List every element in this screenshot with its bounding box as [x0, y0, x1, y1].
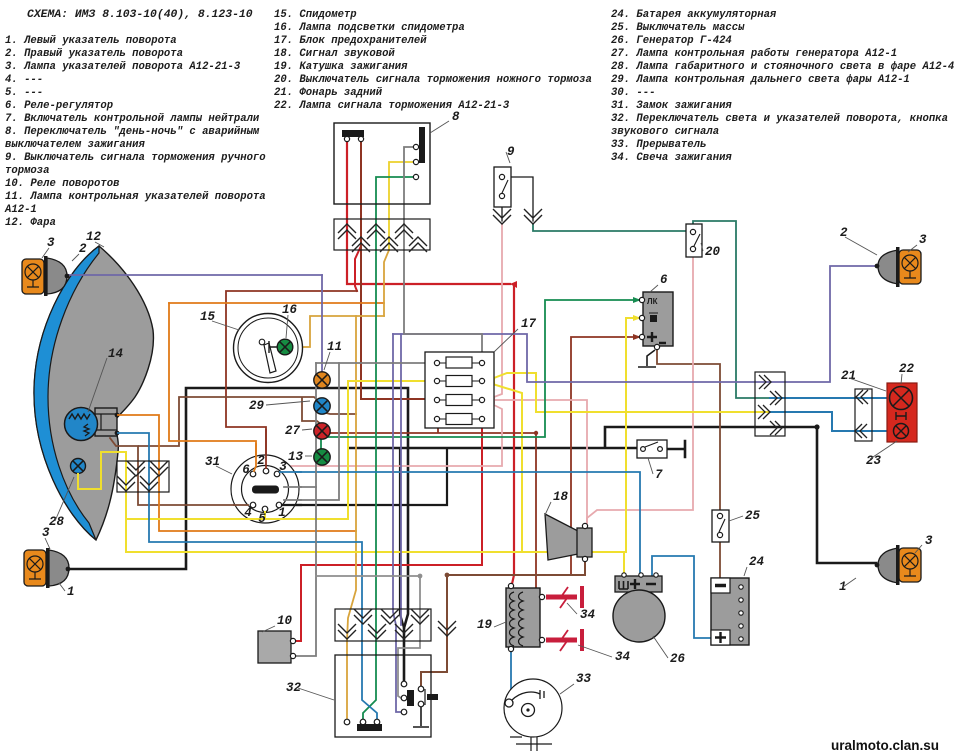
legend column 3	[611, 9, 954, 164]
svg-text:16: 16	[282, 303, 298, 317]
svg-text:13: 13	[288, 450, 304, 464]
wire blue tail lamp23	[770, 412, 893, 431]
wire gray box8 to fuse1	[404, 147, 482, 360]
wire orange ignition pin6	[169, 303, 256, 462]
svg-text:20: 20	[705, 245, 721, 259]
spark plug 34 upper	[546, 595, 577, 600]
svg-text:28. Лампа габаритного и стояно: 28. Лампа габаритного и стояночного свет…	[611, 60, 954, 73]
svg-text:8: 8	[452, 110, 460, 124]
switch 20 footbrake	[686, 224, 702, 257]
lamp 29	[314, 398, 330, 414]
svg-text:25: 25	[745, 509, 761, 523]
wire brown lamp29 top	[139, 397, 321, 446]
arrowhead yellow at relay6 Sh	[633, 315, 641, 321]
svg-text:2: 2	[257, 454, 265, 468]
wire green lamp13 to relay6	[321, 300, 639, 450]
svg-text:выключателем зажигания: выключателем зажигания	[5, 139, 146, 151]
wire violet left signal to lamp11	[67, 274, 322, 276]
wire black ignition bus to rear	[349, 427, 876, 563]
generator 26	[615, 576, 662, 592]
svg-text:1. Левый указатель поворота: 1. Левый указатель поворота	[5, 35, 177, 47]
wire red box8 to coil	[347, 140, 510, 284]
svg-text:34. Свеча зажигания: 34. Свеча зажигания	[611, 152, 732, 164]
svg-text:6: 6	[242, 463, 250, 477]
wire teal switch20 to tail light	[693, 221, 770, 398]
svg-text:12. Фара: 12. Фара	[5, 217, 56, 229]
svg-text:26. Генератор Г-424: 26. Генератор Г-424	[611, 35, 732, 47]
svg-text:26: 26	[670, 652, 686, 666]
horn 18	[545, 514, 578, 560]
turn signal bottom-right 1	[878, 548, 898, 583]
wire violet switch32 to right signal	[393, 334, 401, 625]
svg-text:10. Реле поворотов: 10. Реле поворотов	[5, 178, 120, 190]
headlight 12 body	[34, 246, 153, 540]
wire amber speedo lamp run	[293, 316, 384, 347]
svg-text:19. Катушка зажигания: 19. Катушка зажигания	[274, 61, 408, 73]
svg-text:31. Замок зажигания: 31. Замок зажигания	[611, 100, 732, 112]
wire brown lamp29 bottom	[322, 412, 356, 414]
svg-text:3: 3	[47, 236, 55, 250]
fuse block 17	[425, 352, 494, 428]
svg-text:34: 34	[580, 608, 596, 622]
wire blue pin3 to generator plus	[280, 472, 640, 578]
wire yellow fuse2 to tail light	[486, 373, 770, 412]
wire red connector jog to ignition branch	[355, 246, 361, 291]
bulb 14	[65, 408, 98, 441]
svg-text:4: 4	[244, 506, 252, 520]
wire blue headlight lowbeam to switch32	[118, 433, 377, 719]
svg-text:звукового сигнала: звукового сигнала	[611, 126, 719, 138]
svg-text:16. Лампа подсветки спидометра: 16. Лампа подсветки спидометра	[274, 22, 465, 34]
svg-text:15: 15	[200, 310, 216, 324]
wire brown headlight bulb to pin4	[110, 438, 251, 505]
wire brown relay6 minus to mass switch	[657, 349, 720, 511]
wire maroon box8 to fuse3	[361, 140, 434, 399]
wire orange top run	[169, 302, 384, 304]
svg-text:2: 2	[79, 242, 87, 256]
pin number labels	[242, 454, 287, 526]
svg-text:7: 7	[655, 468, 663, 482]
svg-text:33: 33	[576, 672, 592, 686]
arrowhead red at coil feed	[510, 281, 517, 288]
lamp 13	[314, 449, 330, 465]
wire teal switch9 to switch20	[533, 224, 688, 231]
wire pink switch20 to horn	[587, 252, 693, 523]
connector under box 8	[334, 219, 430, 250]
wire orange stub pin6	[234, 430, 301, 519]
svg-text:17: 17	[521, 317, 537, 331]
svg-text:27. Лампа контрольная работы г: 27. Лампа контрольная работы генератора …	[611, 47, 897, 60]
wire pink fuse3 to horn	[486, 400, 587, 523]
wire brown horn to mass circuit and switch32	[421, 561, 585, 686]
svg-text:uralmoto.clan.su: uralmoto.clan.su	[831, 738, 939, 753]
arrowhead pink at fuse3	[486, 396, 495, 404]
svg-text:24: 24	[749, 555, 765, 569]
svg-text:30. ---: 30. ---	[611, 87, 656, 99]
wire yellow pin5 stub	[264, 512, 266, 519]
svg-text:1: 1	[839, 580, 847, 594]
wire maroon lamp27 fuse4 coil	[322, 421, 540, 597]
svg-text:29: 29	[249, 399, 265, 413]
svg-text:тормоза: тормоза	[5, 165, 50, 177]
wire violet lamp11 to switch32	[393, 334, 401, 712]
lamp 11	[314, 372, 330, 388]
svg-text:19: 19	[477, 618, 493, 632]
svg-text:15. Спидометр: 15. Спидометр	[274, 9, 357, 21]
junction brown horn branch	[445, 573, 450, 578]
svg-text:8. Переключатель "день-ночь" с: 8. Переключатель "день-ночь" с аварийным	[5, 126, 260, 138]
svg-text:3: 3	[279, 460, 287, 474]
wire black pin1 to bus	[281, 449, 447, 505]
svg-text:4. ---: 4. ---	[5, 74, 43, 86]
arrowhead yellow at fuse2	[486, 377, 495, 385]
switch 7 neutral	[637, 440, 667, 458]
wire yellow parking lamp to generator	[78, 452, 624, 578]
connector above switch 32	[335, 609, 431, 641]
svg-text:А12-1: А12-1	[4, 204, 37, 216]
wire blue tail lamp22	[770, 397, 889, 399]
lamp 27	[314, 423, 330, 439]
svg-text:9. Выключатель сигнала торможе: 9. Выключатель сигнала торможения ручног…	[5, 152, 266, 164]
wire pink handbrake switch to fuse3	[486, 224, 502, 400]
box 8 switch day-night	[334, 123, 430, 204]
wire gray to switch32	[316, 576, 420, 698]
lamp 28	[71, 459, 86, 474]
wire maroon relay6 plus feeder	[571, 337, 639, 574]
svg-text:18: 18	[553, 490, 569, 504]
tail connector box	[855, 389, 872, 441]
junction maroon fuse4 branch	[534, 431, 538, 435]
svg-text:5: 5	[258, 512, 266, 526]
tail light 21	[887, 383, 917, 442]
svg-text:10: 10	[277, 614, 293, 628]
relay6 ground	[638, 350, 656, 367]
svg-text:6: 6	[660, 273, 668, 287]
wire yellow fuse2 to generator branch	[486, 382, 522, 552]
left connector box	[117, 461, 169, 492]
svg-text:22: 22	[899, 362, 915, 376]
svg-text:27: 27	[285, 424, 301, 438]
wire maroon speedo branch to ignition pin2	[226, 291, 357, 469]
svg-text:3. Лампа указателей поворота А: 3. Лампа указателей поворота А12-21-3	[5, 61, 241, 73]
mass switch 25	[712, 510, 729, 542]
svg-text:11. Лампа контрольная указател: 11. Лампа контрольная указателей поворот…	[5, 191, 266, 203]
svg-text:21: 21	[841, 369, 856, 383]
wire yellow fuse2 left run	[126, 381, 434, 519]
wire amber box8 down	[389, 162, 416, 250]
arrowhead maroon at relay6 plus	[633, 334, 641, 340]
svg-text:2. Правый указатель поворота: 2. Правый указатель поворота	[5, 48, 183, 60]
leader lines	[42, 121, 922, 700]
svg-text:СХЕМА: ИМЗ 8.103-10(40), 8.123: СХЕМА: ИМЗ 8.103-10(40), 8.123-10	[27, 9, 253, 21]
junction gray switch32 feed	[418, 574, 423, 579]
headlight bulb housing	[95, 408, 117, 436]
battery 24	[711, 578, 749, 645]
svg-text:25. Выключатель массы: 25. Выключатель массы	[611, 22, 745, 34]
svg-text:17. Блок предохранителей: 17. Блок предохранителей	[274, 35, 427, 47]
arrowhead green at relay6 LK	[633, 297, 641, 303]
svg-text:ЛК: ЛК	[647, 297, 658, 306]
svg-text:21. Фонарь задний: 21. Фонарь задний	[274, 87, 383, 99]
svg-text:18. Сигнал звуковой: 18. Сигнал звуковой	[274, 48, 395, 60]
wire red relay10 feed	[293, 565, 301, 641]
wire yellow relay6 sh	[626, 318, 639, 552]
wire black bus tap to switch32	[400, 449, 404, 628]
switch 32 box	[335, 655, 431, 737]
right connector box	[755, 372, 785, 436]
svg-text:20. Выключатель сигнала тормож: 20. Выключатель сигнала торможения ножно…	[274, 74, 592, 86]
turn signal top-left 2	[22, 259, 44, 294]
relay 10	[258, 631, 291, 663]
svg-text:29. Лампа контрольная дальнего: 29. Лампа контрольная дальнего света фар…	[611, 73, 910, 86]
wire orange headlight highbeam	[118, 415, 356, 531]
wire gray fuse1 left long	[316, 362, 434, 364]
svg-text:5. ---: 5. ---	[5, 87, 43, 99]
wire brown mass switch to battery	[719, 541, 721, 578]
wire green box8 to switch32	[363, 177, 416, 719]
svg-text:14: 14	[108, 347, 124, 361]
headlight 12 lens crescent	[34, 246, 99, 540]
svg-text:34: 34	[615, 650, 631, 664]
wire gray down to relay10	[294, 363, 316, 656]
svg-text:3: 3	[42, 526, 50, 540]
svg-text:3: 3	[925, 534, 933, 548]
turn signal bottom-left 1	[24, 550, 46, 586]
relay regulator 6	[643, 292, 673, 346]
wire pink fuse3 to ignition area	[285, 401, 502, 466]
wire gray to ignition	[283, 363, 339, 500]
svg-text:6. Реле-регулятор: 6. Реле-регулятор	[5, 100, 113, 112]
spark plug 34 lower	[546, 638, 577, 643]
svg-text:1: 1	[278, 506, 286, 520]
wire gray ignition stub	[283, 486, 316, 488]
svg-text:7. Включатель контрольной ламп: 7. Включатель контрольной лампы нейтрали	[5, 113, 260, 125]
svg-text:22. Лампа сигнала торможения А: 22. Лампа сигнала торможения А12-21-3	[274, 100, 510, 112]
wire brown branch to lamp27	[302, 398, 322, 425]
coil 19	[506, 588, 540, 647]
svg-text:11: 11	[327, 340, 342, 354]
wire red fuse4 to relay10 line	[301, 421, 482, 565]
lamp 16	[269, 341, 277, 353]
speedometer 15	[234, 314, 303, 383]
ignition switch 31	[231, 455, 299, 523]
wire blue generator to battery plus	[652, 556, 711, 638]
legend column 2	[274, 9, 592, 112]
svg-text:1: 1	[67, 585, 75, 599]
junction black rear bus	[814, 424, 819, 429]
wire amber to switch32	[347, 316, 356, 718]
wire black switch9 leads	[502, 177, 533, 221]
switch 9 handbrake	[494, 167, 511, 207]
svg-text:12: 12	[86, 230, 102, 244]
legend column 1	[4, 35, 266, 229]
wire black bus headlight-to-switch32	[65, 388, 408, 681]
breaker 33	[504, 679, 562, 737]
turn signal top-right 2	[878, 250, 898, 284]
wire blue coil to breaker	[510, 650, 512, 697]
svg-text:24. Батарея аккумуляторная: 24. Батарея аккумуляторная	[611, 9, 777, 21]
svg-text:32. Переключатель света и указ: 32. Переключатель света и указателей пов…	[611, 113, 948, 125]
svg-text:33. Прерыватель: 33. Прерыватель	[611, 139, 706, 151]
svg-text:3: 3	[919, 233, 927, 247]
